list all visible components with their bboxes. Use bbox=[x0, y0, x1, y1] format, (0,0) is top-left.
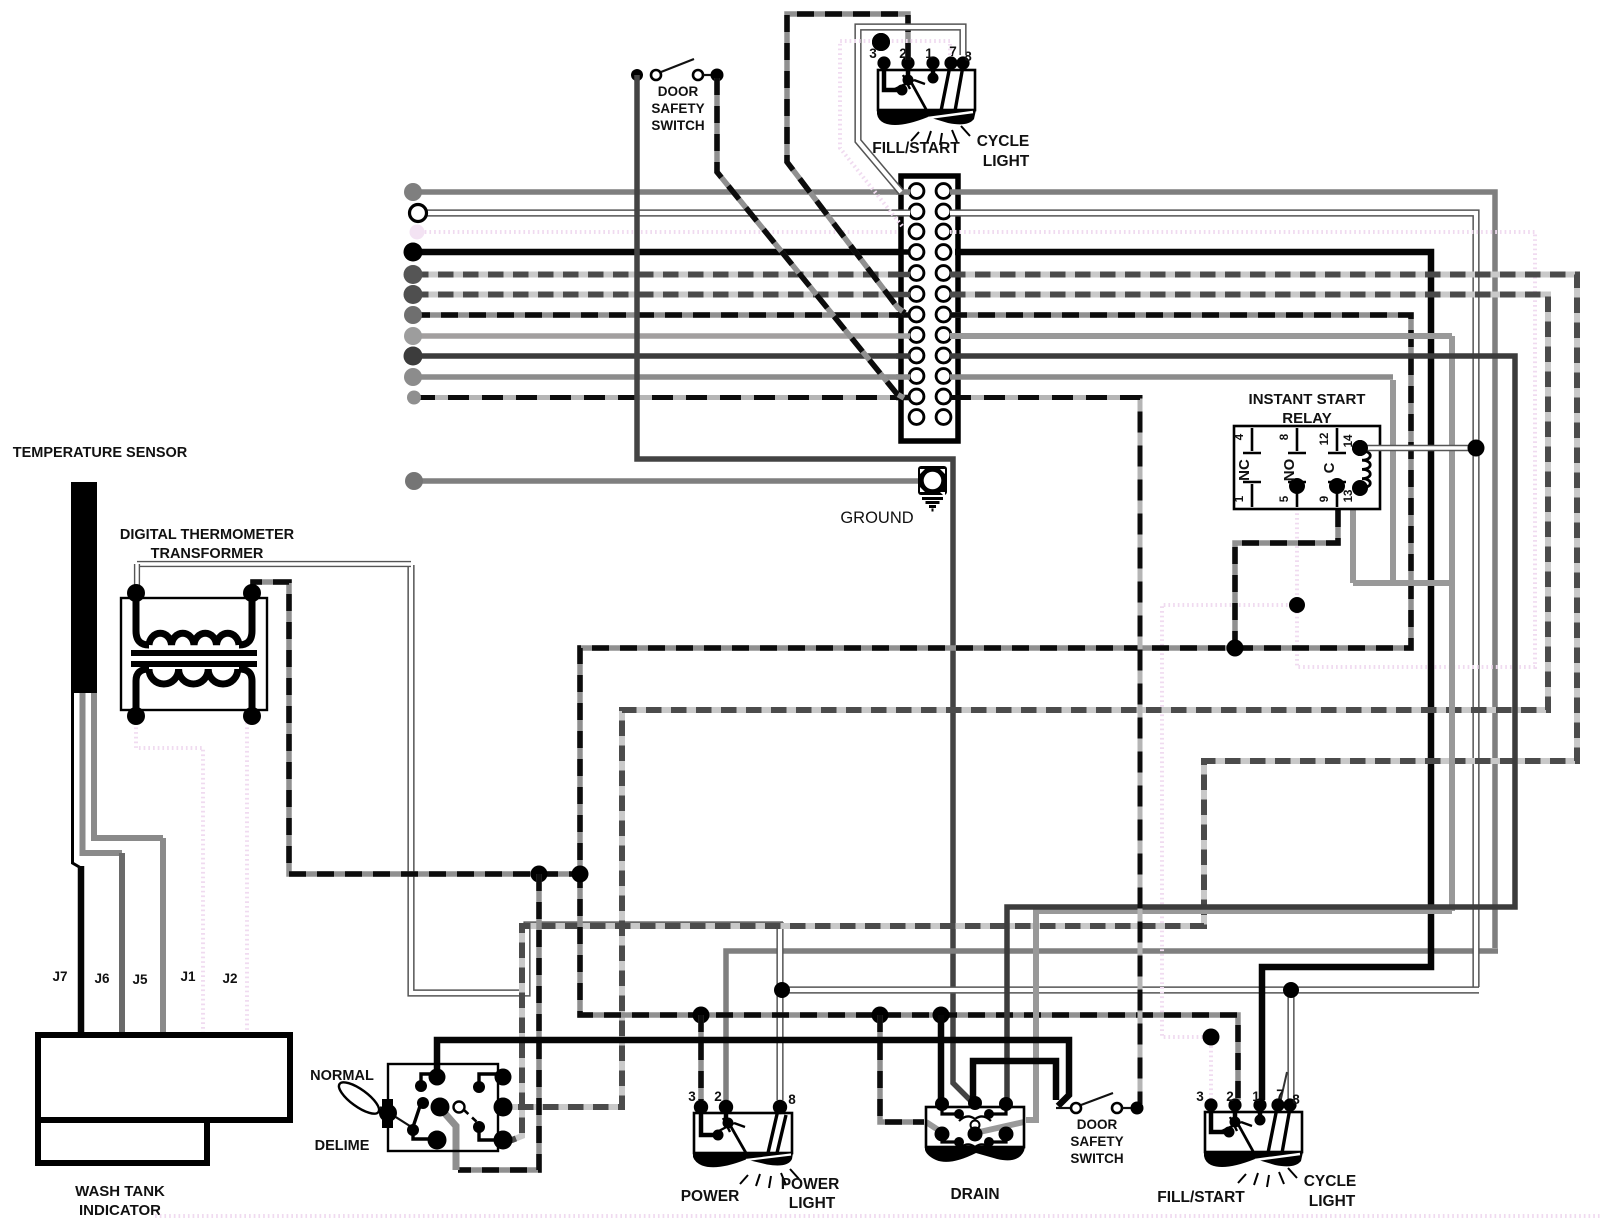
transformer T1 bbox=[121, 594, 267, 714]
node transformer pin bottom-left bbox=[127, 707, 145, 725]
svg-text:FILL/START: FILL/START bbox=[1157, 1189, 1245, 1206]
wire stub row1 left entry bbox=[896, 189, 910, 195]
switch S5 DRAIN bbox=[925, 1096, 1025, 1162]
wire gray y583 + relay pin13 + row10 drop bbox=[1353, 380, 1452, 583]
ground symbol bbox=[918, 466, 947, 510]
svg-text:7: 7 bbox=[949, 44, 957, 59]
node junction dashed y874 x539 bbox=[531, 866, 548, 883]
svg-text:1: 1 bbox=[1252, 1089, 1260, 1104]
wire gray x1452 bbox=[1449, 336, 1455, 911]
relay K1 INSTANT START RELAY bbox=[1234, 426, 1380, 509]
wire sensor lead gray1 bbox=[83, 693, 123, 853]
svg-text:WASH TANK: WASH TANK bbox=[75, 1183, 165, 1200]
wire J1 pink bbox=[136, 718, 203, 1035]
wire row9 dark right to DRAIN top-right bbox=[950, 356, 1515, 1100]
wire white drop to FILL2 pin8 bbox=[1287, 990, 1294, 1100]
wire row1 gray right: to x1495 down bbox=[950, 192, 1495, 948]
wire white drop to POWER pin8 bbox=[776, 922, 783, 1100]
node relay pin14 bbox=[1352, 440, 1368, 456]
wire stub row11 left entry bbox=[896, 395, 910, 401]
wire row2 white left bbox=[420, 209, 952, 216]
wire dashed: top door switch to row11 bbox=[717, 78, 904, 398]
wire black y1040 net bbox=[437, 1040, 1069, 1106]
wire row6 dark dashed left bbox=[413, 292, 952, 298]
wire sensor lead gray2 bbox=[94, 693, 163, 838]
node row11 left endpoint bbox=[407, 391, 421, 405]
svg-text:DIGITAL THERMOMETER: DIGITAL THERMOMETER bbox=[120, 527, 295, 543]
wire row5 dark dashed left bbox=[413, 272, 952, 278]
wire gray diagonal inside DRAIN left bbox=[926, 1122, 943, 1133]
wire row7 black-dashed left bbox=[413, 312, 952, 318]
switch S6 DOOR SAFETY (bottom) bbox=[1071, 1093, 1144, 1115]
wire gray swoosh DELIME common bbox=[441, 1109, 456, 1170]
svg-text:GROUND: GROUND bbox=[840, 509, 913, 527]
svg-text:5: 5 bbox=[1279, 495, 1291, 502]
node ground wire endpoint bbox=[405, 472, 423, 490]
wash tank indicator lower box bbox=[38, 1120, 207, 1163]
wire dashed branch to relay pin9 bbox=[1235, 492, 1338, 648]
node row7 left endpoint bbox=[404, 306, 422, 324]
svg-text:FILL/START: FILL/START bbox=[872, 140, 960, 157]
node junction above pin3 (top) overlay bbox=[872, 33, 890, 51]
svg-text:POWER: POWER bbox=[781, 1176, 840, 1193]
svg-text:NORMAL: NORMAL bbox=[310, 1068, 374, 1084]
node transformer pin top-left bbox=[127, 584, 145, 602]
svg-text:8: 8 bbox=[788, 1092, 796, 1107]
wire white from transformer to y925 bbox=[411, 565, 783, 993]
wire row4 black right to FILL2 pin1 bbox=[955, 252, 1431, 1100]
node junction pink x1297 bbox=[1289, 597, 1305, 613]
wire row11 right to bottom door switch bbox=[950, 398, 1140, 1105]
wire pink branch to FILL2 pin3 bbox=[1162, 605, 1297, 1100]
wire stub row5 left entry bbox=[896, 272, 910, 278]
connector terminal block TB1 bbox=[901, 176, 958, 441]
svg-text:1: 1 bbox=[925, 46, 933, 61]
node row2 left endpoint (open) bbox=[410, 205, 427, 222]
svg-text:DOOR: DOOR bbox=[658, 84, 699, 99]
wire row3 pink left bbox=[420, 230, 952, 234]
svg-text:8: 8 bbox=[1292, 1092, 1300, 1107]
switch S2 DOOR SAFETY (top) bbox=[631, 59, 724, 82]
svg-text:LIGHT: LIGHT bbox=[983, 153, 1030, 170]
svg-text:TRANSFORMER: TRANSFORMER bbox=[151, 546, 264, 562]
wire white from transformer top-left bbox=[137, 561, 411, 567]
svg-text:SWITCH: SWITCH bbox=[1070, 1151, 1123, 1166]
switch S7 FILL/START (bottom) bbox=[1204, 1098, 1303, 1187]
wire J5 bbox=[160, 838, 166, 1035]
node row1 left endpoint bbox=[404, 183, 422, 201]
wire white horizontal y990 bbox=[780, 986, 1479, 993]
wash tank indicator box bbox=[38, 1035, 290, 1120]
wire stub row8 left entry bbox=[896, 333, 910, 339]
svg-text:J1: J1 bbox=[180, 969, 196, 984]
node junction dashed y1015 x701 bbox=[693, 1007, 710, 1024]
wire dashed drop to POWER pin3 bbox=[698, 1015, 704, 1100]
svg-text:9: 9 bbox=[1319, 496, 1331, 502]
svg-text:1: 1 bbox=[1234, 495, 1246, 502]
wire pink loop around S1 to pin7 bbox=[840, 41, 950, 226]
svg-text:J5: J5 bbox=[132, 972, 148, 987]
svg-text:12: 12 bbox=[1319, 433, 1331, 446]
node junction white y990/x1291 bbox=[1283, 982, 1299, 998]
wire row9 dark-gray left bbox=[413, 353, 952, 359]
svg-text:SWITCH: SWITCH bbox=[651, 118, 704, 133]
wire stub row10 left entry bbox=[896, 374, 910, 380]
svg-text:J7: J7 bbox=[52, 969, 67, 984]
svg-text:LIGHT: LIGHT bbox=[1309, 1193, 1356, 1210]
wire J2 pink bbox=[245, 718, 249, 1035]
wire row10 gray right bbox=[950, 374, 1393, 380]
svg-text:INDICATOR: INDICATOR bbox=[79, 1202, 161, 1219]
svg-text:4: 4 bbox=[1234, 433, 1246, 440]
node row6 left endpoint bbox=[404, 285, 423, 304]
node junction white y990/x780 bbox=[774, 982, 790, 998]
wire row11 black-dashed left bbox=[414, 395, 952, 400]
wire row2 white right + down x1476 bbox=[950, 213, 1476, 987]
svg-text:CYCLE: CYCLE bbox=[1304, 1173, 1357, 1190]
node junction dashed y874 x580 bbox=[572, 866, 589, 883]
wire ground gray bbox=[414, 478, 920, 484]
node junction dashed y1015 x941 bbox=[933, 1007, 950, 1024]
svg-text:J2: J2 bbox=[222, 971, 237, 986]
svg-text:J6: J6 bbox=[94, 971, 110, 986]
svg-text:3: 3 bbox=[688, 1089, 696, 1104]
temperature sensor probe bbox=[71, 482, 97, 693]
wire row7 net: top dashed loop to pin2 of S1 bbox=[787, 14, 908, 313]
svg-text:2: 2 bbox=[1226, 1089, 1234, 1104]
wire gray diagonal inside DRAIN bbox=[975, 1122, 1024, 1133]
svg-text:NO: NO bbox=[1281, 458, 1298, 481]
node row4 left endpoint bbox=[404, 243, 423, 262]
node junction white x1476 y448 bbox=[1468, 440, 1485, 457]
wire row3 pink right loop to relay pin5 bbox=[950, 232, 1535, 667]
wire row8 light gray right bbox=[950, 333, 1452, 339]
switch S1 FILL/START (top) bbox=[877, 56, 976, 145]
node row3 left endpoint bbox=[410, 225, 425, 240]
wire row6 net to DELIME pin2R bbox=[506, 295, 1548, 1108]
node row5 left endpoint bbox=[404, 265, 423, 284]
node transformer pin top-right bbox=[243, 584, 261, 602]
svg-text:C: C bbox=[1321, 462, 1338, 473]
wire stub row4 left entry bbox=[896, 249, 910, 255]
wire black y1061 net bbox=[973, 1061, 1056, 1100]
wire sensor lead black bbox=[73, 693, 82, 868]
svg-text:14: 14 bbox=[1343, 434, 1355, 447]
wire dashed drop to DRAIN left bbox=[880, 1015, 924, 1122]
svg-text:CYCLE: CYCLE bbox=[977, 133, 1030, 150]
svg-text:SAFETY: SAFETY bbox=[651, 101, 704, 116]
wire row7 net right: to y648, x580, y1015, FILL2 pin2 bbox=[580, 315, 1411, 1100]
node transformer pin bottom-right bbox=[243, 707, 261, 725]
node junction dashed y648 bbox=[1227, 640, 1244, 657]
wire stub row9 left entry bbox=[896, 353, 910, 359]
wire stub row2 left entry bbox=[896, 209, 910, 216]
svg-text:7: 7 bbox=[1276, 1087, 1284, 1102]
svg-text:DRAIN: DRAIN bbox=[950, 1186, 999, 1203]
wire row4 black left bbox=[413, 249, 958, 256]
wire white lamp tap pin7 (bottom fill/start) bbox=[1280, 1072, 1287, 1103]
switch S4 POWER bbox=[693, 1100, 799, 1188]
wire J7 black bbox=[78, 866, 85, 1035]
wire row8 light-gray left bbox=[413, 333, 952, 339]
wire stub row6 left entry bbox=[896, 292, 910, 298]
svg-text:TEMPERATURE SENSOR: TEMPERATURE SENSOR bbox=[13, 445, 188, 461]
wire pink bottom rail bbox=[155, 1214, 1600, 1218]
svg-text:INSTANT START: INSTANT START bbox=[1249, 391, 1366, 408]
node junction dashed y1015 x880 bbox=[872, 1007, 889, 1024]
switch S3 NORMAL/DELIME bbox=[335, 1064, 513, 1151]
wire dark net: door safety top to DRAIN center bbox=[637, 75, 973, 1103]
node row9 left endpoint bbox=[404, 347, 423, 366]
svg-text:8: 8 bbox=[1279, 433, 1291, 440]
node row8 left endpoint bbox=[404, 327, 422, 345]
wire stub row7 left entry bbox=[896, 312, 910, 318]
wire white stub transformer TL pin bbox=[134, 564, 140, 588]
wire gray: y951 to POWER pin2 bbox=[726, 951, 1498, 1100]
svg-text:POWER: POWER bbox=[681, 1188, 740, 1205]
svg-text:DOOR: DOOR bbox=[1077, 1117, 1118, 1132]
wire dashed transformer to y874 bbox=[253, 582, 580, 874]
svg-text:13: 13 bbox=[1343, 490, 1355, 503]
svg-text:DELIME: DELIME bbox=[315, 1138, 370, 1154]
node junction above pin3 (top) bbox=[872, 33, 890, 51]
wire white relay pin14 to x1476 bbox=[1360, 445, 1476, 451]
svg-text:3: 3 bbox=[1196, 1089, 1204, 1104]
node junction pink y1037 bbox=[1203, 1029, 1220, 1046]
svg-text:SAFETY: SAFETY bbox=[1070, 1134, 1123, 1149]
wire black drop to DRAIN top-left bbox=[938, 1015, 945, 1100]
node row10 left endpoint bbox=[404, 368, 422, 386]
svg-text:LIGHT: LIGHT bbox=[789, 1195, 836, 1212]
wire row1 gray left bbox=[413, 189, 952, 195]
wire white loop around S1 to pin8 bbox=[858, 27, 963, 192]
wire row5 net to DELIME pin3R bbox=[506, 275, 1577, 1141]
wire gray y911 to DRAIN right bbox=[1026, 911, 1452, 1120]
wire J6 bbox=[119, 853, 125, 1035]
svg-text:NC: NC bbox=[1236, 459, 1253, 481]
wire row10 gray left bbox=[413, 374, 952, 380]
svg-text:2: 2 bbox=[714, 1089, 722, 1104]
wire stub to door switch bbox=[1056, 1107, 1071, 1109]
svg-text:RELAY: RELAY bbox=[1282, 410, 1331, 427]
wire dashed x539 down to DELIME swoosh bbox=[458, 874, 539, 1170]
